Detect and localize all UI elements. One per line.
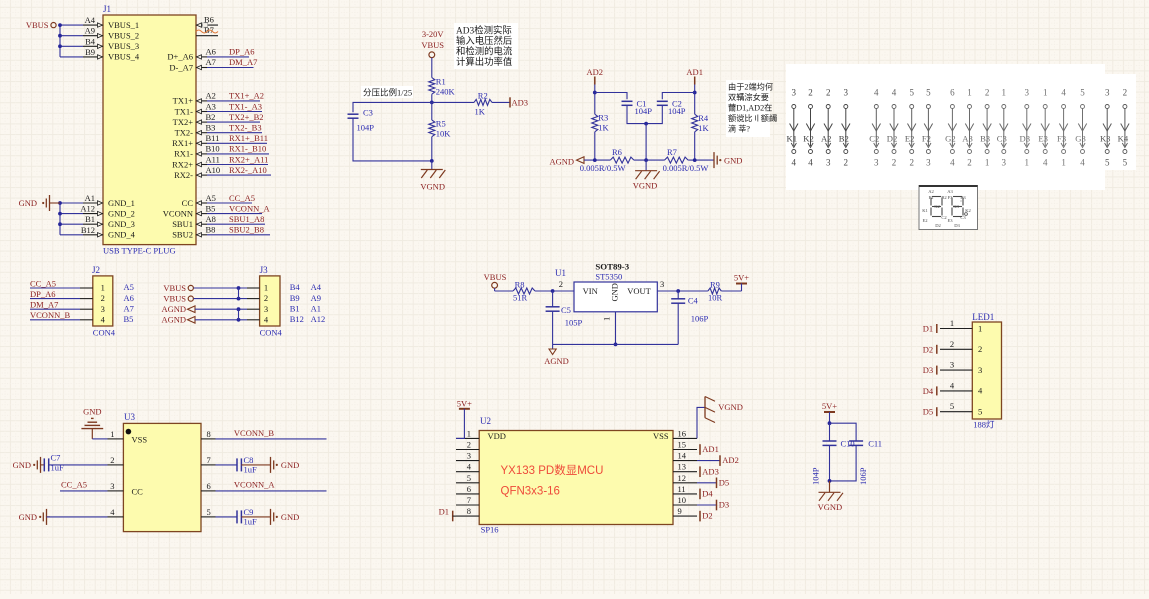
svg-text:U3: U3 — [124, 412, 135, 422]
svg-text:3: 3 — [467, 451, 471, 461]
figure LED D2 — [887, 88, 898, 168]
svg-text:A3: A3 — [947, 189, 953, 194]
connector J3 — [260, 265, 283, 338]
U2 pin 2 — [456, 440, 479, 450]
svg-text:0.005R/0.5W: 0.005R/0.5W — [663, 163, 709, 173]
svg-text:VGND: VGND — [818, 502, 843, 512]
svg-text:1: 1 — [985, 158, 990, 168]
wire R9 to 5V+ — [721, 290, 741, 292]
wire VCONN_B to J2 — [30, 310, 80, 320]
svg-text:CC: CC — [182, 198, 194, 208]
svg-text:3: 3 — [926, 158, 931, 168]
svg-text:R2: R2 — [478, 90, 488, 100]
power port GND (above U3 pin1) — [81, 407, 103, 439]
svg-text:RX1+_B11: RX1+_B11 — [229, 133, 268, 143]
svg-text:8: 8 — [207, 429, 211, 439]
svg-text:TX1+_A2: TX1+_A2 — [229, 91, 264, 101]
svg-text:C3: C3 — [363, 108, 373, 118]
J2 pin 2 — [80, 293, 134, 303]
figure LED F2 — [922, 88, 933, 168]
wire SBU1_A8 — [207, 214, 265, 224]
svg-text:VBUS: VBUS — [26, 20, 49, 30]
wire node to C3 — [353, 102, 432, 112]
svg-text:1K: 1K — [598, 123, 609, 133]
IC U3 — [123, 412, 201, 532]
svg-text:GND_2: GND_2 — [108, 208, 135, 218]
svg-text:C11: C11 — [868, 439, 882, 449]
svg-text:3: 3 — [978, 365, 982, 375]
svg-text:TX1-: TX1- — [175, 106, 194, 116]
ground VGND (U2) — [697, 397, 743, 439]
svg-text:A2: A2 — [206, 91, 216, 101]
svg-text:3: 3 — [660, 279, 664, 289]
svg-text:GND_3: GND_3 — [108, 219, 135, 229]
svg-text:3: 3 — [1025, 88, 1030, 98]
wire bottom rail U1 — [553, 343, 679, 345]
svg-text:4: 4 — [1061, 88, 1066, 98]
figure LED G3 — [1075, 88, 1086, 168]
svg-text:USB TYPE-C PLUG: USB TYPE-C PLUG — [103, 246, 176, 256]
svg-text:VCONN: VCONN — [163, 208, 193, 218]
figure LED A3 — [962, 88, 973, 168]
J3 pin 2 — [247, 293, 321, 303]
svg-text:16: 16 — [678, 428, 687, 438]
svg-text:D1: D1 — [923, 324, 933, 334]
svg-text:TX1-_A3: TX1-_A3 — [229, 101, 262, 111]
svg-text:B2: B2 — [206, 112, 216, 122]
svg-text:VDD: VDD — [488, 431, 506, 441]
svg-text:AGND: AGND — [549, 157, 574, 167]
svg-text:TX2+: TX2+ — [173, 117, 194, 127]
port AD3 (U2) — [700, 466, 719, 477]
svg-text:C10: C10 — [841, 439, 855, 449]
svg-text:106P: 106P — [858, 467, 868, 485]
svg-text:GND: GND — [19, 198, 37, 208]
svg-text:B9: B9 — [290, 293, 300, 303]
port AGND to J3 pin3 — [161, 304, 247, 314]
U2 pin 16 — [673, 428, 697, 438]
svg-text:VCONN_B: VCONN_B — [234, 428, 274, 438]
svg-text:VBUS: VBUS — [484, 272, 507, 282]
svg-text:4: 4 — [874, 88, 879, 98]
svg-text:B5: B5 — [206, 203, 216, 213]
note text (divider ratio) — [361, 86, 413, 98]
J1 pin A6 D+_A6 — [167, 46, 215, 61]
svg-text:5V+: 5V+ — [734, 273, 749, 283]
svg-text:分压比例1/25: 分压比例1/25 — [363, 88, 412, 98]
port D1 (U2 pin8) — [439, 506, 456, 521]
svg-text:2: 2 — [1123, 88, 1128, 98]
U2 pin 15 — [673, 440, 697, 450]
note text AD3 — [454, 23, 518, 69]
LED1 pin 3 — [940, 360, 982, 375]
J1 pin A4 VBUS_1 — [83, 15, 139, 30]
svg-text:4: 4 — [792, 158, 797, 168]
U3 pin 3 — [108, 481, 124, 491]
J1 pin A10 RX2- — [174, 165, 220, 180]
svg-text:A10: A10 — [206, 165, 221, 175]
J3 pin 3 — [247, 303, 321, 313]
svg-text:C9: C9 — [244, 507, 254, 517]
U2 pin 8 — [456, 506, 479, 516]
svg-text:VBUS_3: VBUS_3 — [108, 41, 139, 51]
svg-text:1: 1 — [1002, 88, 1007, 98]
svg-text:B1: B1 — [290, 303, 300, 313]
svg-text:输入电压然后: 输入电压然后 — [456, 35, 512, 47]
capacitor C4 106P — [671, 291, 708, 344]
svg-text:C2: C2 — [869, 134, 879, 144]
power port GND (C9) — [271, 509, 300, 525]
capacitor C10 104P — [811, 439, 855, 486]
svg-text:E3: E3 — [1038, 134, 1048, 144]
svg-text:G3: G3 — [953, 204, 959, 209]
svg-text:2: 2 — [978, 344, 982, 354]
port AD2 (U2) — [697, 455, 739, 466]
svg-text:B4: B4 — [290, 282, 301, 292]
svg-text:2: 2 — [559, 279, 563, 289]
svg-text:3: 3 — [110, 481, 114, 491]
svg-text:4: 4 — [892, 88, 897, 98]
connector LED1 — [972, 312, 1001, 430]
svg-text:1: 1 — [1025, 158, 1030, 168]
svg-text:R1: R1 — [436, 76, 446, 86]
svg-text:SP16: SP16 — [481, 525, 499, 535]
U3 pin 8 — [201, 429, 216, 439]
U3 pin 5 — [201, 507, 216, 517]
svg-text:和检测的电流: 和检测的电流 — [456, 46, 513, 58]
capacitor C9 1uF — [216, 507, 271, 527]
svg-text:3: 3 — [826, 158, 831, 168]
svg-text:4: 4 — [101, 314, 106, 324]
power port VBUS (top left) — [26, 20, 56, 30]
capacitor C3 104P — [348, 108, 375, 133]
wire 5V+ to U2 pin1 — [456, 409, 464, 439]
svg-text:1: 1 — [110, 429, 114, 439]
svg-text:GND: GND — [83, 407, 101, 417]
svg-text:2: 2 — [950, 339, 954, 349]
svg-text:J3: J3 — [260, 265, 269, 275]
svg-text:10K: 10K — [436, 129, 452, 139]
U2 pin 13 — [673, 462, 697, 472]
svg-text:AGND: AGND — [161, 315, 186, 325]
svg-text:TX1+: TX1+ — [173, 96, 194, 106]
ground VGND (divider) — [420, 161, 445, 192]
J1 pin A11 RX2+ — [172, 154, 220, 169]
svg-text:RX2+_A11: RX2+_A11 — [229, 154, 268, 164]
svg-text:D1: D1 — [439, 506, 449, 516]
power port GND (U3 pin2 left) — [13, 457, 45, 473]
ground VGND (sense) — [633, 160, 660, 190]
wire TX1-_A3 — [207, 101, 262, 111]
svg-text:RX2-_A10: RX2-_A10 — [229, 165, 267, 175]
svg-text:由于2端均何: 由于2端均何 — [728, 82, 773, 92]
figure LED D3 — [1020, 88, 1031, 168]
svg-text:1: 1 — [602, 317, 612, 321]
svg-text:GND_1: GND_1 — [108, 198, 135, 208]
svg-text:105P: 105P — [565, 318, 583, 328]
J3 pin 1 — [247, 282, 322, 292]
svg-text:C4: C4 — [688, 296, 699, 306]
svg-text:F3: F3 — [948, 195, 954, 200]
svg-text:R4: R4 — [698, 113, 709, 123]
svg-text:B1: B1 — [85, 214, 95, 224]
svg-text:11: 11 — [678, 484, 686, 494]
svg-text:A5: A5 — [124, 282, 134, 292]
svg-text:AGND: AGND — [544, 356, 569, 366]
wire GND to U3 pin1 — [92, 438, 107, 440]
svg-text:12: 12 — [678, 473, 687, 483]
svg-text:SOT89-3: SOT89-3 — [595, 262, 629, 272]
svg-text:CC_A5: CC_A5 — [30, 278, 56, 288]
J1 pin A3 TX1- — [175, 101, 216, 116]
svg-text:5: 5 — [467, 473, 471, 483]
svg-text:K1: K1 — [922, 208, 928, 213]
figure LED E2 — [905, 88, 916, 168]
svg-text:AD1: AD1 — [702, 444, 719, 454]
svg-text:6: 6 — [467, 484, 471, 494]
wire C7 to U3 pin2 — [49, 464, 108, 466]
port AGND to J3 pin4 — [161, 315, 247, 325]
wire DM_A7 — [207, 57, 257, 68]
svg-text:A6: A6 — [206, 46, 216, 56]
svg-text:2: 2 — [844, 158, 849, 168]
svg-text:C3: C3 — [960, 215, 966, 220]
port VBUS to J3 pin1 — [163, 283, 247, 293]
svg-text:K4: K4 — [1118, 134, 1129, 144]
port VBUS to J3 pin2 — [163, 293, 247, 303]
svg-text:1: 1 — [264, 283, 268, 293]
power port 5V+ (regulator) — [734, 273, 749, 291]
svg-text:9: 9 — [678, 506, 682, 516]
figure LED F3 — [1057, 88, 1068, 168]
J1 pin A7 D-_A7 — [169, 57, 216, 72]
figure LED E3 — [1038, 88, 1049, 168]
J1 pin B12 GND_4 — [81, 225, 136, 240]
svg-text:D2: D2 — [923, 344, 933, 354]
svg-text:CC_A5: CC_A5 — [229, 193, 255, 203]
svg-text:E2: E2 — [905, 134, 915, 144]
svg-text:滴 莘?: 滴 莘? — [728, 124, 750, 134]
svg-text:K1: K1 — [787, 134, 798, 144]
svg-text:VBUS_1: VBUS_1 — [108, 20, 139, 30]
svg-text:3: 3 — [874, 158, 879, 168]
svg-text:GND: GND — [724, 156, 742, 166]
wire DM_A7 to J2 — [30, 300, 80, 310]
wire DP_A6 to J2 — [30, 289, 80, 299]
svg-text:2: 2 — [967, 158, 972, 168]
wire CC_A5 — [207, 193, 255, 203]
wire C1/C2 to mid rail — [627, 105, 662, 123]
svg-text:2: 2 — [909, 158, 914, 168]
svg-text:TX2-: TX2- — [175, 128, 194, 138]
svg-text:DP_A6: DP_A6 — [229, 46, 255, 56]
svg-text:VBUS: VBUS — [163, 283, 186, 293]
J1 pin B3 TX2- — [175, 123, 216, 138]
svg-text:SBU1_A8: SBU1_A8 — [229, 214, 264, 224]
svg-text:1: 1 — [467, 428, 471, 438]
port D4 (LED1) — [923, 386, 937, 396]
figure LED K1 — [787, 88, 798, 168]
power port VBUS 3-20V — [421, 29, 444, 58]
svg-text:R8: R8 — [515, 280, 525, 290]
svg-text:RX1-: RX1- — [174, 149, 193, 159]
svg-text:VBUS: VBUS — [421, 40, 444, 50]
svg-text:GND: GND — [19, 512, 37, 522]
svg-text:RX2-: RX2- — [174, 170, 193, 180]
svg-text:U1: U1 — [555, 268, 566, 278]
wire R8 to U1 pin2 — [535, 290, 574, 292]
svg-text:G2: G2 — [934, 204, 940, 209]
wire R3 down — [594, 132, 596, 160]
wire AD2 node to C1 — [595, 93, 627, 100]
port AD1 (U2) — [700, 444, 719, 455]
port D5 (U2) — [697, 477, 729, 488]
svg-text:VBUS_2: VBUS_2 — [108, 31, 139, 41]
wire RX2-_A10 — [207, 165, 271, 175]
svg-text:J2: J2 — [92, 265, 100, 275]
figure background (LED pinout image) — [786, 64, 1105, 190]
svg-text:2: 2 — [985, 88, 990, 98]
power port 5V+ (U2) — [457, 398, 472, 409]
resistor R3 1K — [592, 112, 610, 132]
svg-text:A7: A7 — [124, 303, 134, 313]
svg-text:SBU1: SBU1 — [172, 219, 193, 229]
svg-text:6: 6 — [950, 88, 955, 98]
port AD2 — [587, 67, 604, 85]
J1 pin B2 TX2+ — [173, 112, 216, 127]
U2 pin 5 — [456, 473, 479, 483]
svg-text:TX2-_B3: TX2-_B3 — [229, 123, 262, 133]
svg-text:RX1-_B10: RX1-_B10 — [229, 144, 266, 154]
svg-text:B3: B3 — [960, 195, 966, 200]
svg-text:D3: D3 — [923, 365, 933, 375]
node divider bottom — [430, 159, 434, 163]
wire U1 pin3 out — [657, 290, 708, 292]
svg-text:B4: B4 — [85, 36, 96, 46]
wire C10/C11 bottom — [828, 445, 857, 483]
LED1 pin 1 — [940, 318, 982, 333]
figure LED C2 — [869, 88, 880, 168]
wire TX1+_A2 — [207, 91, 264, 101]
regulator U1 ST5350 — [555, 262, 664, 322]
svg-text:薾D1,AD2在: 薾D1,AD2在 — [728, 103, 772, 113]
U2 pin 11 — [673, 484, 697, 494]
svg-text:CC_A5: CC_A5 — [61, 480, 87, 490]
wire R2 to AD3 — [492, 101, 510, 103]
svg-text:D2: D2 — [702, 511, 712, 521]
svg-text:双鞲淙女要: 双鞲淙女要 — [728, 92, 769, 102]
wire AGND link J3 — [238, 309, 240, 320]
svg-text:GND: GND — [281, 512, 299, 522]
port D5 (LED1) — [923, 407, 937, 417]
svg-text:R9: R9 — [710, 280, 720, 290]
svg-text:A12: A12 — [311, 314, 326, 324]
svg-text:C5: C5 — [561, 305, 571, 315]
svg-text:3: 3 — [950, 360, 954, 370]
svg-text:VOUT: VOUT — [627, 286, 651, 296]
svg-text:188灯: 188灯 — [973, 420, 995, 430]
J1 pin A2 TX1+ — [173, 91, 216, 106]
svg-text:YX133 PD数显MCU: YX133 PD数显MCU — [501, 463, 604, 477]
svg-text:D3: D3 — [954, 223, 960, 228]
svg-text:104P: 104P — [811, 467, 821, 485]
svg-text:7: 7 — [207, 455, 211, 465]
svg-text:4: 4 — [1080, 158, 1085, 168]
resistor R8 51R — [513, 280, 535, 303]
svg-text:AGND: AGND — [161, 304, 186, 314]
U3 pin 4 — [108, 507, 124, 517]
U2 pin 3 — [456, 451, 479, 461]
svg-text:A9: A9 — [311, 293, 321, 303]
svg-text:0.005R/0.5W: 0.005R/0.5W — [580, 163, 626, 173]
J1 pin B8 SBU2 — [172, 225, 215, 240]
wire GND bus to J1 — [58, 201, 83, 235]
svg-text:AD1: AD1 — [686, 67, 703, 77]
figure LED K2 — [803, 88, 814, 168]
wire GND to U3 pin4 — [47, 516, 108, 518]
wire VBUS to R1 — [431, 58, 433, 78]
svg-text:3-20V: 3-20V — [422, 29, 445, 39]
ground VGND (C10) — [818, 481, 843, 512]
svg-text:1: 1 — [978, 323, 982, 333]
svg-text:2: 2 — [808, 88, 813, 98]
svg-text:RX2+: RX2+ — [172, 159, 193, 169]
svg-text:DM_A7: DM_A7 — [30, 300, 58, 310]
figure LED C3 — [997, 88, 1008, 168]
J1 pin A1 GND_1 — [83, 193, 135, 208]
svg-text:D4: D4 — [923, 386, 934, 396]
wire AGND to R6 — [584, 159, 610, 161]
svg-text:LED1: LED1 — [972, 312, 994, 322]
svg-text:A2: A2 — [928, 189, 934, 194]
wire RX1-_B10 — [207, 144, 269, 154]
wire VCONN_B from U3 pin8 — [216, 428, 327, 439]
svg-text:A5: A5 — [206, 193, 216, 203]
wire R6 to R7 — [634, 159, 665, 161]
wire SBU2_B8 — [207, 225, 270, 235]
svg-text:2: 2 — [101, 293, 105, 303]
wire AD1 node to C2 — [662, 93, 694, 100]
svg-text:AD2: AD2 — [722, 455, 739, 465]
svg-text:K3: K3 — [1100, 134, 1111, 144]
J2 pin 3 — [80, 303, 134, 313]
svg-text:GND: GND — [610, 283, 620, 301]
port D1 (LED1) — [923, 324, 937, 334]
svg-text:A4: A4 — [85, 15, 96, 25]
svg-text:4: 4 — [950, 158, 955, 168]
svg-text:1K: 1K — [475, 107, 486, 117]
svg-text:VCONN_B: VCONN_B — [30, 310, 70, 320]
svg-text:3: 3 — [844, 88, 849, 98]
svg-text:B11: B11 — [206, 133, 220, 143]
J1 pin B7 (error squiggle) — [196, 25, 218, 36]
wire RX1+_B11 — [207, 133, 268, 143]
svg-text:SBU2: SBU2 — [172, 230, 193, 240]
svg-text:RX1+: RX1+ — [172, 138, 193, 148]
wire AD2 down — [594, 85, 596, 115]
capacitor C7 1uF — [44, 453, 64, 473]
resistor R4 1K — [692, 113, 710, 133]
svg-text:D2: D2 — [887, 134, 898, 144]
MCU U2 YX133 — [479, 416, 673, 535]
U2 pin 10 — [673, 495, 697, 505]
svg-text:CON4: CON4 — [93, 328, 116, 338]
U2 pin 6 — [456, 484, 479, 494]
svg-text:D+_A6: D+_A6 — [167, 52, 193, 62]
port VBUS (regulator) — [484, 272, 507, 288]
svg-text:F2: F2 — [922, 134, 931, 144]
svg-text:GND: GND — [281, 460, 299, 470]
